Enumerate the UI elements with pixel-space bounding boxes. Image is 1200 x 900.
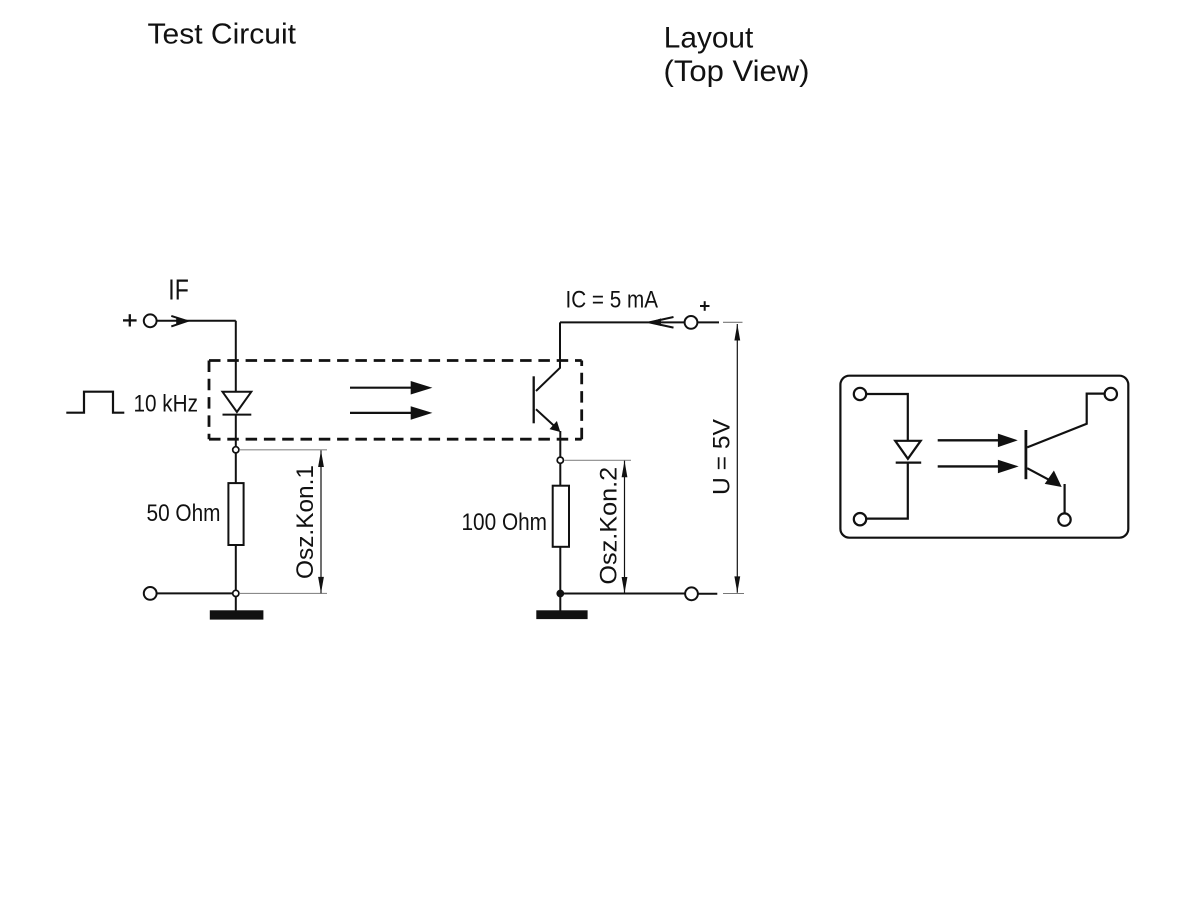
wire anode vertical bbox=[235, 321, 237, 392]
svg-text:Test Circuit: Test Circuit bbox=[148, 18, 297, 50]
dimension line U = 5V bbox=[736, 324, 738, 593]
phototransistor Q1 emitter bbox=[536, 409, 557, 428]
ground right bbox=[536, 610, 587, 619]
wire collector to terminal top right bbox=[560, 321, 685, 323]
svg-text:(Top View): (Top View) bbox=[664, 55, 810, 88]
layout emitter wire with arrow bbox=[1027, 468, 1049, 480]
wire bottom to terminal bottom right bbox=[560, 593, 685, 595]
terminal circle bottom left bbox=[144, 587, 157, 600]
arrow IC current direction bbox=[649, 317, 673, 328]
plus sign right bbox=[700, 301, 710, 311]
svg-text:U = 5V: U = 5V bbox=[709, 419, 736, 495]
square wave symbol 10 kHz source bbox=[66, 392, 124, 413]
layout pin collector (top right) bbox=[1105, 388, 1117, 400]
LED diode D1 bbox=[223, 392, 252, 415]
arrow IF current direction bbox=[171, 316, 187, 327]
svg-text:IF: IF bbox=[168, 275, 189, 307]
wire terminal bottom right to U dimension bbox=[698, 593, 717, 595]
wire node to resistor R1 bbox=[235, 453, 237, 483]
dimension line Osz.Kon.2 bbox=[624, 461, 626, 594]
layout pin anode (top left) bbox=[854, 388, 866, 400]
svg-text:50 Ohm: 50 Ohm bbox=[147, 500, 221, 527]
wire resistor R1 to bottom node bbox=[235, 545, 237, 593]
ground left bbox=[210, 610, 264, 619]
layout wire cathode bbox=[866, 463, 907, 519]
node bottom right (junction dot) bbox=[557, 590, 564, 597]
svg-text:Osz.Kon.2: Osz.Kon.2 bbox=[596, 467, 623, 585]
layout pin cathode (bottom left) bbox=[854, 513, 866, 525]
terminal circle input left bbox=[144, 314, 157, 327]
optocoupler dashed box bbox=[209, 361, 582, 440]
phototransistor Q1 base bar bbox=[533, 376, 535, 423]
wire resistor R2 to bottom node bbox=[559, 547, 561, 594]
svg-text:Osz.Kon.1: Osz.Kon.1 bbox=[292, 465, 319, 579]
resistor R1 50 Ohm bbox=[228, 483, 243, 545]
svg-text:IC = 5 mA: IC = 5 mA bbox=[566, 287, 659, 314]
extension tick U top bbox=[723, 321, 743, 323]
layout pin emitter (bottom) bbox=[1058, 513, 1070, 525]
wire cathode bbox=[235, 415, 237, 447]
node K1 below LED bbox=[233, 447, 239, 453]
light arrows in coupler bbox=[350, 381, 432, 420]
wire node to resistor R2 bbox=[559, 463, 561, 485]
dimension line Osz.Kon.1 bbox=[320, 450, 322, 593]
extension line Osz.Kon.1 bottom bbox=[240, 592, 327, 594]
node bottom left bbox=[233, 590, 239, 596]
layout package outline bbox=[840, 376, 1128, 538]
wire input top left horizontal bbox=[157, 320, 236, 322]
layout phototransistor base bar bbox=[1025, 430, 1028, 479]
terminal circle bottom right bbox=[685, 587, 698, 600]
wire emitter to node bbox=[559, 431, 561, 457]
resistor R2 100 Ohm bbox=[553, 486, 569, 547]
plus sign input left bbox=[123, 314, 137, 326]
layout wire anode bbox=[866, 394, 907, 441]
extension line Osz.Kon.1 top bbox=[240, 449, 327, 451]
svg-text:Layout: Layout bbox=[664, 21, 754, 54]
svg-text:100 Ohm: 100 Ohm bbox=[462, 509, 548, 536]
wire bottom left horizontal bbox=[157, 592, 236, 594]
layout LED diode bbox=[895, 441, 921, 463]
layout collector wire bbox=[1027, 394, 1104, 448]
wire to ground right bbox=[559, 597, 561, 613]
phototransistor Q1 collector bbox=[536, 322, 560, 391]
wire to ground left bbox=[235, 597, 237, 613]
wire terminal to U dimension bbox=[698, 321, 720, 323]
node below phototransistor bbox=[557, 457, 563, 463]
extension tick U bottom bbox=[723, 593, 744, 595]
extension line Osz.Kon.2 top bbox=[565, 459, 632, 461]
layout light arrows bbox=[938, 434, 1019, 474]
terminal circle top right bbox=[685, 316, 698, 329]
svg-text:10 kHz: 10 kHz bbox=[134, 391, 199, 418]
